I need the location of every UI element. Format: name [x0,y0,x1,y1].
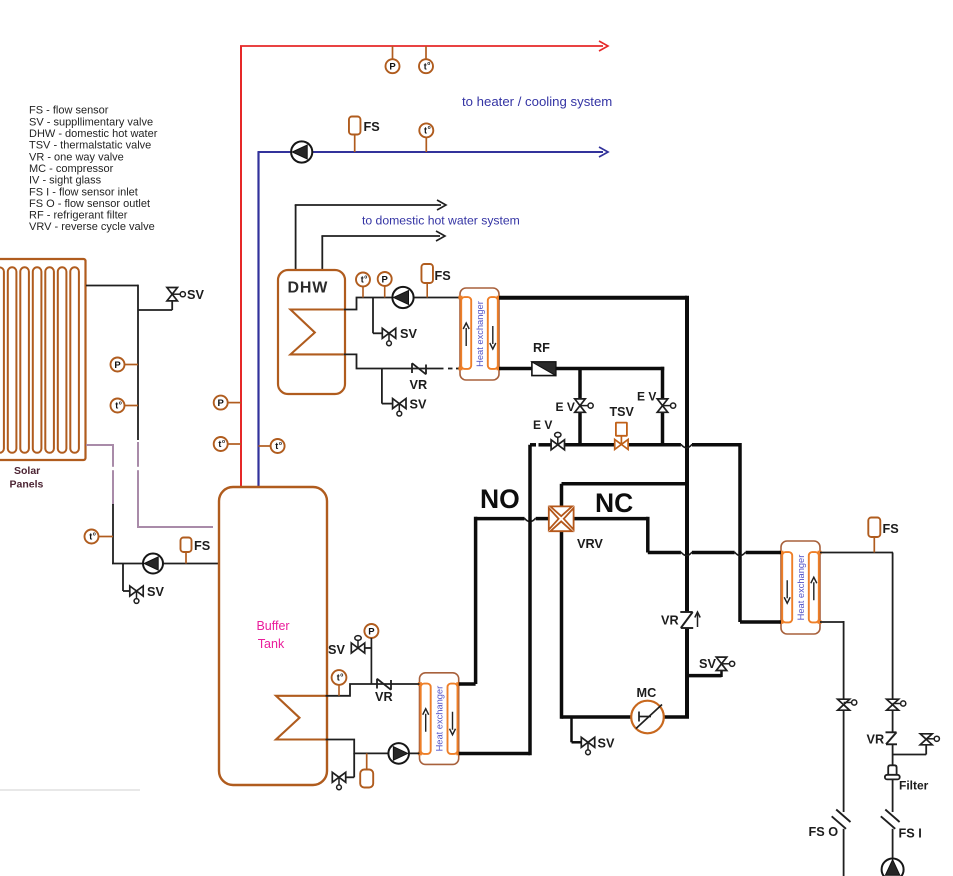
svg-text:t: t [89,532,92,542]
svg-text:SV: SV [147,585,164,599]
svg-text:Heat exchanger: Heat exchanger [475,301,485,367]
svg-text:FS I: FS I [899,827,922,841]
svg-text:o: o [427,61,430,67]
svg-text:FS: FS [194,539,210,553]
svg-text:t: t [275,441,278,451]
svg-text:P: P [382,274,389,285]
svg-text:t: t [424,126,427,136]
svg-text:SV: SV [328,643,345,657]
svg-text:FS I - flow sensor inlet: FS I - flow sensor inlet [29,186,138,198]
svg-text:o: o [340,672,343,678]
svg-text:TSV - thermalstatic valve: TSV - thermalstatic valve [29,140,151,152]
svg-text:SV: SV [699,657,716,671]
svg-text:to domestic hot water system: to domestic hot water system [362,214,520,228]
svg-text:TSV: TSV [610,405,635,419]
svg-text:VRV - reverse cycle valve: VRV - reverse cycle valve [29,221,155,233]
svg-text:Heat exchanger: Heat exchanger [435,686,445,752]
svg-text:FS - flow sensor: FS - flow sensor [29,105,109,117]
svg-text:NO: NO [480,484,520,514]
svg-text:o: o [428,125,431,131]
svg-text:Panels: Panels [10,479,44,491]
svg-text:VR - one way valve: VR - one way valve [29,151,124,163]
svg-text:DHW: DHW [288,280,329,297]
svg-text:FS: FS [364,120,380,134]
svg-text:o: o [279,441,282,447]
svg-text:o: o [364,274,367,280]
svg-text:Tank: Tank [258,637,285,651]
svg-text:VR: VR [375,690,393,704]
svg-text:VR: VR [661,614,679,628]
svg-text:FS: FS [883,522,899,536]
svg-text:VR: VR [867,733,885,747]
svg-text:P: P [114,360,121,371]
svg-text:to heater / cooling system: to heater / cooling system [462,94,612,109]
svg-text:o: o [119,400,122,406]
svg-text:Buffer: Buffer [256,619,289,633]
svg-text:P: P [368,626,375,637]
svg-text:MC - compressor: MC - compressor [29,163,114,175]
svg-text:P: P [389,62,396,73]
svg-text:t: t [218,439,221,449]
svg-text:DHW - domestic hot water: DHW - domestic hot water [29,128,158,140]
svg-text:RF: RF [533,341,550,355]
svg-text:E V: E V [637,390,656,404]
svg-text:VR: VR [410,378,428,392]
svg-text:SV: SV [598,737,615,751]
svg-text:o: o [93,531,96,537]
svg-text:SV - suppllimentary valve: SV - suppllimentary valve [29,116,153,128]
svg-text:o: o [222,439,225,445]
svg-text:VRV: VRV [577,537,603,551]
svg-text:FS: FS [435,269,451,283]
svg-text:t: t [337,673,340,683]
svg-text:Filter: Filter [899,779,929,793]
svg-text:Heat exchanger: Heat exchanger [796,555,806,621]
svg-text:P: P [218,398,225,409]
svg-text:IV - sight glass: IV - sight glass [29,175,102,187]
svg-text:SV: SV [410,398,427,412]
svg-text:SV: SV [400,327,417,341]
svg-text:SV: SV [187,288,204,302]
svg-text:E V: E V [556,400,575,414]
svg-text:E V: E V [533,418,552,432]
svg-text:MC: MC [637,686,657,700]
svg-text:FS O - flow sensor outlet: FS O - flow sensor outlet [29,198,150,210]
svg-text:t: t [115,401,118,411]
svg-text:t: t [361,275,364,285]
svg-text:FS O: FS O [809,825,839,839]
svg-text:Solar: Solar [14,465,40,477]
svg-text:NC: NC [595,488,633,518]
svg-text:RF - refrigerant filter: RF - refrigerant filter [29,210,128,222]
svg-text:t: t [424,61,427,71]
